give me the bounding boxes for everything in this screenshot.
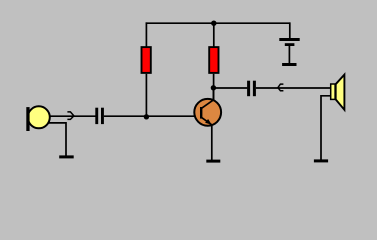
- microphone MIC1 body: [28, 106, 50, 128]
- wire collector node down into Q1: [212, 88, 214, 101]
- wire battery negative to ground: [288, 46, 290, 63]
- wire rail to battery: [289, 22, 291, 38]
- wire speaker lower terminal to ground: [321, 96, 331, 160]
- capacitor C1 right plate: [101, 108, 104, 124]
- wire R1 bottom to base node: [145, 74, 147, 116]
- transistor Q1 collector stroke: [202, 100, 214, 108]
- wire mic output to C1: [50, 115, 96, 117]
- wire mic lower terminal to ground: [49, 123, 67, 156]
- capacitor C2 right plate: [253, 81, 256, 97]
- ground speaker: [314, 159, 328, 162]
- transistor Q1 body: [194, 99, 221, 126]
- resistor R2: [209, 47, 218, 73]
- battery B1 negative plate: [285, 43, 295, 46]
- node rail junction dot: [211, 21, 216, 26]
- wire R2 bottom to collector node: [213, 74, 215, 101]
- transistor Q1 emitter arrowhead: [205, 119, 212, 125]
- wire collector node to C2: [213, 87, 247, 89]
- node base junction dot: [144, 114, 149, 119]
- speaker LS1 driver box: [331, 84, 335, 99]
- wire top rail Vcc: [146, 22, 291, 24]
- ground emitter: [206, 160, 220, 163]
- microphone MIC1 diaphragm bar: [26, 107, 29, 131]
- wire emitter to ground: [211, 124, 213, 160]
- resistor R1: [142, 47, 151, 73]
- wire C1 to transistor base: [104, 115, 201, 117]
- arrow input marker of speaker: [278, 84, 284, 91]
- ground microphone: [59, 155, 73, 158]
- wire R2 top to rail: [213, 23, 215, 47]
- transistor Q1 emitter stroke: [202, 117, 212, 124]
- ground battery: [282, 63, 296, 66]
- wire C2 to speaker: [256, 87, 331, 89]
- speaker LS1 horn: [336, 75, 345, 110]
- capacitor C1 left plate: [95, 108, 98, 124]
- node collector junction dot: [211, 85, 216, 90]
- capacitor C2 left plate: [247, 81, 250, 97]
- wire R1 top to rail: [145, 22, 147, 47]
- transistor Q1 base bar: [200, 107, 202, 119]
- arrow output marker of microphone: [67, 112, 74, 120]
- battery B1 positive plate: [279, 38, 299, 41]
